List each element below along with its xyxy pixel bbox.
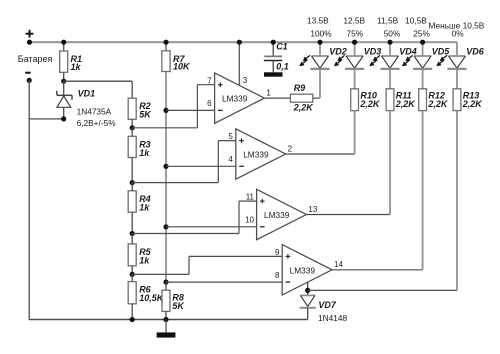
pin 3 power	[239, 42, 248, 85]
svg-text:2,2K: 2,2K	[395, 99, 417, 109]
svg-text:10,5В: 10,5В	[405, 15, 427, 25]
svg-text:LM339: LM339	[243, 150, 269, 160]
node chain bottom	[130, 317, 135, 322]
svg-text:C1: C1	[276, 42, 288, 52]
resistor R6	[128, 274, 165, 319]
wire minus to VD1 anode	[29, 118, 64, 120]
battery minus terminal	[25, 73, 32, 83]
pin 8	[166, 271, 282, 282]
node sense pin8 / R8 top	[163, 280, 168, 285]
node sense pin4	[163, 164, 168, 169]
svg-text:Батарея: Батарея	[18, 54, 53, 64]
op-amp U1.3 LM339	[257, 189, 307, 239]
svg-text:0,1: 0,1	[276, 62, 289, 72]
resistor R9	[290, 83, 320, 112]
zener diode VD1 1N4735A	[57, 81, 116, 128]
svg-text:VD1: VD1	[78, 89, 96, 99]
svg-text:6,2В+/-5%: 6,2В+/-5%	[77, 118, 117, 128]
wire bottom rail	[29, 319, 308, 321]
pin 11	[239, 193, 257, 202]
node R8 bottom	[163, 317, 168, 322]
op-amp U1.2 LM339	[236, 129, 286, 179]
svg-text:13: 13	[308, 205, 317, 214]
capacitor C1 0,1	[264, 42, 289, 73]
svg-text:13.5В: 13.5В	[307, 15, 329, 25]
LED VD4	[369, 42, 399, 69]
wire pin7 feed to tap R2/R3	[196, 85, 198, 128]
svg-text:14: 14	[334, 260, 343, 269]
resistor R8	[162, 282, 185, 319]
op-amp U1.1 LM339	[215, 73, 265, 123]
resistor R5	[128, 234, 151, 275]
wire R11 to output	[389, 111, 391, 215]
svg-text:2,2K: 2,2K	[293, 102, 315, 112]
svg-text:5K: 5K	[139, 110, 152, 120]
node tap R4/R5	[130, 231, 135, 236]
svg-text:5K: 5K	[172, 301, 185, 311]
pin 9	[189, 248, 282, 257]
pin 14 output	[332, 260, 423, 270]
svg-text:VD2: VD2	[329, 46, 347, 56]
svg-text:100%: 100%	[310, 29, 332, 39]
svg-text:5: 5	[228, 132, 233, 141]
pin 2 output	[286, 144, 355, 154]
node VD7 junction	[305, 288, 310, 293]
svg-text:1N4735A: 1N4735A	[77, 107, 112, 117]
node tap R2/R3	[130, 125, 135, 130]
svg-text:12,5В: 12,5В	[343, 15, 365, 25]
pin 7	[197, 76, 214, 85]
op-amp U1.4 LM339	[282, 245, 332, 295]
resistor R7	[162, 42, 191, 71]
svg-text:8: 8	[275, 271, 280, 280]
svg-text:11: 11	[246, 193, 255, 202]
svg-text:2,2K: 2,2K	[427, 99, 449, 109]
node R1 bottom	[61, 79, 66, 84]
pin 5	[218, 132, 236, 141]
svg-text:1N4148: 1N4148	[318, 313, 347, 323]
svg-text:R9: R9	[294, 83, 306, 93]
resistor R3	[128, 128, 151, 183]
svg-text:3: 3	[243, 76, 248, 85]
svg-text:9: 9	[275, 248, 280, 257]
svg-text:11,5В: 11,5В	[377, 15, 399, 25]
node sense pin6	[163, 108, 168, 113]
wire battery minus column	[28, 80, 30, 319]
node tap R5/R6	[130, 272, 135, 277]
svg-text:VD6: VD6	[466, 46, 485, 56]
node junctions on top rail	[61, 40, 66, 45]
pin 4	[166, 155, 236, 166]
node tap R3/R4	[130, 180, 135, 185]
svg-text:VD3: VD3	[364, 46, 382, 56]
svg-text:VD7: VD7	[318, 300, 337, 310]
resistor R12	[419, 70, 449, 111]
svg-text:VD4: VD4	[399, 46, 417, 56]
LED VD5	[402, 42, 432, 69]
wire VD2 cathode to R9	[319, 70, 321, 98]
svg-text:10: 10	[245, 216, 254, 225]
svg-text:1: 1	[266, 88, 271, 97]
pin 1 output	[264, 88, 290, 98]
battery plus terminal	[26, 30, 34, 45]
wire pin11 feed to tap R4/R5	[238, 201, 240, 233]
node VD1 anode	[61, 116, 66, 121]
wire R10 to output	[354, 111, 356, 154]
resistor R10	[351, 70, 381, 111]
svg-text:50%: 50%	[384, 29, 401, 39]
svg-text:2: 2	[288, 144, 293, 153]
wire R12 to output	[422, 111, 424, 270]
wire zener node to R2	[64, 80, 133, 82]
svg-text:0%: 0%	[452, 29, 465, 39]
svg-text:1k: 1k	[139, 148, 150, 158]
svg-text:10K: 10K	[173, 62, 191, 72]
resistor R13	[453, 70, 483, 111]
svg-text:LM339: LM339	[222, 94, 248, 104]
svg-text:6: 6	[207, 99, 212, 108]
node sense pin10	[163, 224, 168, 229]
pin 6	[166, 99, 215, 110]
resistor R2	[128, 81, 152, 128]
wire pin9 feed to tap R5/R6	[188, 256, 190, 274]
LED VD6	[436, 42, 466, 69]
svg-text:75%: 75%	[346, 29, 363, 39]
LED VD2	[299, 42, 329, 69]
ground symbol C1	[264, 72, 283, 76]
wire VD7 junction to R13 column	[308, 289, 457, 291]
svg-text:1k: 1k	[71, 62, 82, 72]
pin 10	[166, 216, 257, 227]
svg-text:4: 4	[228, 155, 233, 164]
pin 13 output	[306, 205, 390, 215]
svg-text:2,2K: 2,2K	[462, 99, 484, 109]
wire R7 column	[165, 72, 167, 283]
svg-text:7: 7	[207, 76, 212, 85]
svg-text:2,2K: 2,2K	[359, 99, 381, 109]
resistor R4	[128, 183, 151, 234]
wire pin5 feed to tap R3/R4	[217, 141, 219, 183]
wire top +rail	[30, 41, 458, 43]
resistor R1	[60, 42, 82, 81]
svg-text:VD5: VD5	[432, 46, 451, 56]
svg-text:LM339: LM339	[264, 210, 290, 220]
svg-text:1k: 1k	[139, 202, 150, 212]
svg-text:LM339: LM339	[290, 265, 316, 275]
ground symbol	[157, 320, 176, 338]
svg-text:1k: 1k	[139, 255, 150, 265]
LED VD3	[334, 42, 364, 69]
diode VD7 1N4148	[300, 282, 348, 323]
resistor R11	[386, 70, 416, 111]
wire R13 to output	[456, 111, 458, 291]
svg-text:10,5K: 10,5K	[139, 293, 165, 303]
